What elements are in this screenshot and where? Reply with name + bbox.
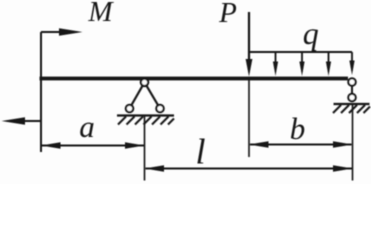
moment M top arrow (right): [41, 28, 83, 36]
q arrow 4: [349, 52, 354, 75]
beam: [40, 77, 349, 81]
dimension b right arrow: [333, 141, 353, 147]
dimension a line: [42, 145, 144, 147]
q arrow 1: [273, 52, 278, 76]
svg-text:q: q: [303, 15, 319, 51]
roller support hinge circle: [348, 78, 355, 85]
dimension l left arrow: [145, 165, 165, 171]
pin support right roller circle: [156, 105, 163, 112]
svg-text:l: l: [195, 132, 205, 172]
q arrow 3: [326, 52, 331, 76]
pin support legs: [130, 82, 161, 108]
roller support ground line: [334, 103, 370, 105]
pin support ground hatching: [118, 117, 174, 125]
moment M bottom arrow (left): [2, 117, 42, 125]
q arrow 2: [299, 52, 304, 76]
force P arrow: [246, 12, 253, 77]
pin support hinge circle: [141, 79, 148, 86]
distributed load q top line: [249, 51, 352, 53]
pin support extension line: [144, 116, 146, 181]
dimension a right arrow: [125, 142, 145, 148]
svg-text:a: a: [79, 109, 95, 144]
roller support link: [351, 86, 353, 95]
dimension b line: [250, 144, 352, 146]
P extension line: [248, 80, 250, 157]
roller support extension line: [352, 105, 354, 181]
svg-text:b: b: [290, 111, 306, 146]
svg-text:M: M: [87, 0, 114, 28]
dimension l right arrow: [333, 165, 353, 171]
pin support ground line: [117, 114, 174, 116]
pin support left roller circle: [126, 105, 133, 112]
dimension a left arrow: [41, 142, 61, 148]
roller support ground hatching: [333, 105, 370, 113]
roller support lower circle: [348, 94, 355, 101]
dimension l line: [146, 168, 353, 170]
moment M couple vertical line: [40, 32, 42, 152]
svg-text:P: P: [218, 0, 237, 29]
dimension b left arrow: [249, 141, 269, 147]
